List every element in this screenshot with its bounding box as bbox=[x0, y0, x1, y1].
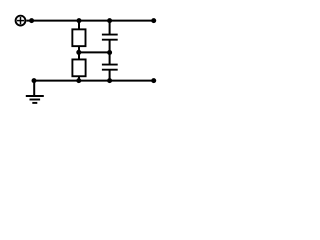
resistor R1 bbox=[72, 29, 85, 46]
ground bbox=[26, 96, 44, 103]
wire top rail bbox=[26, 20, 153, 22]
node bottom of capacitor branch bbox=[107, 78, 112, 83]
node top rail right end bbox=[151, 18, 156, 23]
wire C2 bottom lead bbox=[109, 70, 111, 81]
node bottom rail right end bbox=[151, 78, 156, 83]
capacitor C1 bbox=[102, 35, 118, 40]
node bottom of resistor branch bbox=[76, 78, 81, 83]
wire R2 bottom lead bbox=[78, 76, 80, 80]
wire C1-C2 lead bbox=[109, 40, 111, 65]
wire bottom rail bbox=[34, 80, 154, 82]
wire R1 top lead bbox=[78, 21, 80, 30]
wire R1-R2 lead bbox=[78, 46, 80, 59]
node between C1 and C2 bbox=[107, 50, 112, 55]
wire middle link bbox=[79, 51, 110, 53]
node at terminal bbox=[29, 18, 34, 23]
node top of resistor branch bbox=[77, 18, 82, 23]
wire ground lead bbox=[33, 81, 35, 96]
resistor R2 bbox=[72, 59, 85, 76]
node ground junction bbox=[32, 78, 37, 83]
wire C1 top lead bbox=[109, 21, 111, 35]
node top of capacitor branch bbox=[107, 18, 112, 23]
capacitor C2 bbox=[102, 65, 118, 70]
node between R1 and R2 bbox=[76, 50, 81, 55]
positive supply terminal V+ bbox=[16, 16, 26, 26]
